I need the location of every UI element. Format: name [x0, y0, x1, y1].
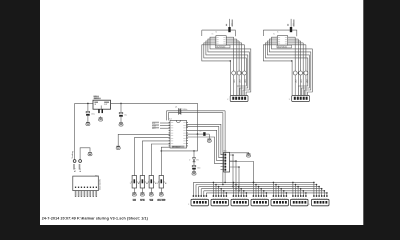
wire drops connector X7: [272, 182, 274, 195]
wire IC2 VCC junction: [187, 133, 198, 135]
wire drops connector X5: [232, 182, 234, 195]
wire loop (block2): [263, 45, 292, 61]
capacitor C2: [120, 103, 122, 112]
capacitor decoupling (block2): [290, 27, 292, 32]
led LED3 (block2): [304, 71, 308, 75]
wire loop (block2): [265, 43, 307, 95]
wire to zener: [161, 134, 197, 151]
resistor network RN1: [73, 176, 99, 191]
svg-text:SV1: SV1: [224, 150, 227, 152]
ground (S2): [141, 192, 145, 194]
wire drop from SV1 area: [230, 162, 254, 183]
bus wire: [193, 181, 314, 183]
wire (block1): [230, 61, 232, 95]
connector X4 pins: [213, 195, 214, 197]
svg-text:LH: LH: [133, 199, 136, 202]
wire IC2 to switch S4: [161, 147, 170, 175]
ground (SV1): [247, 153, 251, 155]
svg-text:S: S: [138, 183, 139, 185]
pin header SV1: [224, 152, 230, 172]
wire IC2 to ground left: [118, 134, 170, 145]
svg-text:MCP23016: MCP23016: [216, 47, 225, 49]
net label SDA: [160, 125, 170, 127]
ground (D2): [207, 138, 211, 140]
wire drops connector X3: [192, 182, 194, 195]
wire loop (block1): [208, 39, 249, 95]
switch S4: [159, 176, 163, 189]
svg-text:S: S: [147, 183, 148, 185]
svg-text:16MHz: 16MHz: [182, 109, 188, 111]
bus wire: [201, 188, 322, 190]
ground (S4): [159, 192, 163, 194]
switch S2: [140, 176, 144, 189]
switch S1: [132, 176, 136, 189]
diode D2 1N4148: [198, 133, 204, 135]
connector X5 pins: [233, 195, 234, 197]
led LED1 (block2): [293, 71, 297, 75]
voltage regulator IC3 78L05: [93, 100, 111, 109]
connector X7 pins: [273, 195, 274, 197]
wire terminal to ground: [80, 148, 90, 160]
label Vul: [149, 199, 153, 201]
svg-text:Voeding: Voeding: [72, 151, 74, 158]
svg-text:D2: D2: [200, 130, 202, 132]
svg-text:OUT: OUT: [104, 104, 108, 106]
svg-text:100n: 100n: [197, 168, 201, 170]
bus wire: [206, 192, 327, 194]
svg-text:100u: 100u: [91, 114, 95, 116]
svg-text:7805T: 7805T: [94, 98, 100, 100]
wire IC2 to SV1 a: [187, 124, 224, 154]
capacitor C7: [192, 166, 196, 167]
io expander IC4 MCP23016 (block1): [216, 36, 226, 45]
svg-text:Q1: Q1: [175, 107, 177, 109]
ground (IC2 left): [116, 145, 120, 147]
svg-text:MCP23016: MCP23016: [278, 47, 287, 49]
wire to terminal: [74, 103, 76, 159]
wire SV1 fanout c: [230, 167, 240, 191]
wire drops connector X8: [292, 182, 294, 195]
capacitor C1: [87, 103, 89, 111]
connector X6 pins: [253, 195, 254, 197]
svg-text:S: S: [157, 183, 158, 185]
wire IC2 to switch S3: [151, 144, 170, 176]
switch S3: [149, 176, 153, 189]
svg-text:+5V: +5V: [293, 23, 295, 26]
connector header (block2): [292, 96, 310, 102]
wire IC2 to SV1 c: [187, 130, 224, 160]
zener diode D3: [193, 158, 196, 162]
terminal X1-2 B-: [79, 160, 82, 163]
wire crystal net 2: [168, 112, 223, 114]
wire loop (block2): [269, 39, 310, 95]
label On- Off: [158, 199, 165, 201]
wire (block1): [227, 40, 239, 42]
led LED2 (block1): [237, 71, 241, 75]
bus wire: [199, 186, 320, 188]
svg-text:MEGA8-P: MEGA8-P: [172, 145, 181, 148]
wire loop (block2): [267, 41, 309, 95]
io expander IC5 MCP23016 (block2): [277, 36, 287, 45]
svg-text:B- 2: B- 2: [80, 169, 82, 172]
ground (C2): [119, 122, 123, 124]
wire (block2): [289, 36, 295, 38]
wire (block2): [289, 44, 306, 46]
label S %: [140, 199, 145, 201]
ground (S1): [132, 192, 136, 194]
wire IC2 to switch S1: [134, 138, 170, 176]
wire (block2): [289, 42, 303, 44]
svg-text:IC2: IC2: [169, 118, 172, 120]
label LH: [133, 199, 136, 201]
wire +12V input: [75, 102, 93, 104]
wire (block2): [289, 38, 299, 40]
wire IC2 to switch S2: [142, 141, 170, 176]
svg-text:Vul: Vul: [149, 199, 153, 202]
wire IC2 to SV1 b: [187, 126, 224, 157]
connector X8 pins: [292, 195, 293, 197]
svg-text:+5V: +5V: [232, 23, 234, 26]
wire SV1 fanout a: [230, 155, 234, 187]
wire (block1): [227, 36, 233, 38]
wire crystal line down: [224, 111, 226, 183]
connector X3 pins: [193, 195, 194, 197]
wire VCC top (block1): [202, 30, 236, 36]
wire SV1 to ground: [230, 152, 249, 155]
wire SV1 fanout b: [230, 161, 237, 189]
svg-text:10u: 10u: [124, 115, 127, 117]
wire crystal 2 to IC2: [167, 113, 169, 121]
svg-text:S: S: [130, 183, 131, 185]
terminal X1-1 B+: [73, 160, 76, 163]
crystal Q1 16MHz: [178, 108, 180, 114]
bus wire: [204, 190, 324, 192]
wire drops connector X4: [212, 182, 214, 195]
connector X9 pins: [313, 195, 314, 197]
wire (block1): [227, 38, 237, 40]
net label RST: [160, 127, 170, 129]
led LED1 (block1): [232, 71, 236, 75]
led LED2 (block2): [299, 71, 303, 75]
ground (S3): [149, 192, 153, 194]
wire (block2): [289, 40, 301, 42]
wire (block1): [227, 42, 241, 44]
wire crystal to IC2 pin: [166, 111, 168, 121]
wire (block2): [291, 61, 293, 95]
ground (C1): [86, 121, 90, 123]
wire loop (block1): [204, 43, 247, 95]
wire loop (block1): [202, 45, 231, 61]
led LED3 (block1): [242, 71, 246, 75]
wire IC2 to SV1 d: [187, 137, 224, 164]
ground (regulator): [99, 117, 103, 119]
wire (block1): [227, 44, 244, 46]
dot (bus feeds): [224, 182, 226, 184]
microcontroller IC2 MEGA8: [170, 120, 187, 148]
net label SCL: [160, 122, 170, 124]
wire +5V rail: [111, 103, 198, 134]
wire crystal line 2 down: [222, 113, 224, 185]
wire loop (block1): [210, 37, 251, 95]
wire VCC top (block2): [263, 30, 297, 36]
bus wire: [196, 184, 317, 186]
wire loop (block2): [272, 37, 313, 95]
svg-text:5V1: 5V1: [196, 160, 199, 162]
connector header (block1): [230, 96, 248, 102]
wire drops connector X9: [313, 182, 315, 195]
capacitor decoupling (block1): [228, 27, 230, 32]
svg-text:G5LE 24VDC: G5LE 24VDC: [99, 178, 101, 190]
wire drops connector X6: [252, 182, 254, 195]
svg-text:On- Off: On- Off: [157, 199, 165, 202]
ground (supply): [88, 152, 92, 154]
wire loop (block1): [206, 41, 248, 95]
svg-text:B+ 1: B+ 1: [75, 168, 77, 172]
wire crystal net: [167, 110, 226, 112]
ground (zener): [192, 171, 196, 173]
svg-text:24-7-2014 20:07:49 F:\Kalmar: 24-7-2014 20:07:49 F:\Kalmar sturing V3-…: [42, 217, 149, 221]
